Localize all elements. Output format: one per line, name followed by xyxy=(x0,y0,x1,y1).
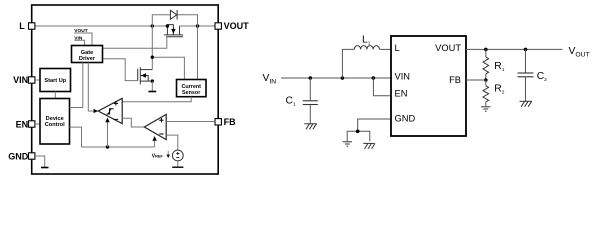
svg-text:FB: FB xyxy=(224,117,236,127)
voltage source VREF xyxy=(172,150,183,161)
capacitor C2 xyxy=(525,49,527,73)
svg-text:Current: Current xyxy=(181,84,201,90)
Q2 body stub with arrow xyxy=(140,76,148,82)
outer IC boundary box xyxy=(32,5,219,174)
wire: comparator minus to error amp output xyxy=(122,118,144,127)
svg-text:Control: Control xyxy=(45,122,65,128)
wire: FB tap xyxy=(466,79,486,81)
svg-text:Sensor: Sensor xyxy=(182,90,201,96)
ground (Q2 source) xyxy=(148,91,156,93)
node: R1 junction xyxy=(484,48,488,52)
svg-text:Driver: Driver xyxy=(79,56,96,62)
node: drain junction dot xyxy=(151,56,154,59)
svg-text:EN: EN xyxy=(395,88,408,98)
svg-text:VOUT: VOUT xyxy=(224,21,250,31)
VIN supply label above gate driver xyxy=(74,35,84,45)
wire: FB pin to error amp + xyxy=(166,121,215,123)
transistor Q1 (PMOS sync rectifier) xyxy=(164,25,183,37)
wire: diode branch xyxy=(152,15,170,26)
block: Gate Driver U2 xyxy=(72,46,103,63)
svg-text:Start Up: Start Up xyxy=(44,78,66,84)
hysteresis glyph inside comparator xyxy=(107,109,114,114)
wire: error amp - to VREF xyxy=(166,135,178,150)
ground (GND pin) xyxy=(41,167,49,169)
svg-text:FB: FB xyxy=(449,75,461,85)
VOUT supply label above gate driver xyxy=(74,28,92,46)
svg-text:VOUT: VOUT xyxy=(435,43,461,53)
wire: VIN pin to Start Up xyxy=(35,79,40,81)
Q2 source stub xyxy=(140,80,152,82)
pin FB xyxy=(215,119,221,125)
svg-text:VIN: VIN xyxy=(395,72,411,82)
wire: EN pin to Device Control xyxy=(35,123,40,125)
Q2 gate bar xyxy=(137,69,139,81)
wire: top rail left segment (L pin to PMOS drain stub) xyxy=(35,25,168,27)
wire: L1 to IC L pin xyxy=(379,48,391,50)
svg-text:EN: EN xyxy=(16,119,29,129)
node: SW junction dot xyxy=(151,24,154,27)
node: C1 junction xyxy=(309,76,313,80)
wire: VOUT rail down to current sensor xyxy=(197,26,199,80)
wire: device control lower output rail xyxy=(70,127,155,147)
ground (VREF) xyxy=(172,166,183,168)
resistor R1 xyxy=(485,49,487,57)
svg-text:GND: GND xyxy=(8,151,29,161)
node: VOUT-side junction dot xyxy=(196,24,199,27)
ground (C1, chassis style) xyxy=(304,124,317,130)
wire: riser to L1 xyxy=(342,49,354,78)
wire+arrow into comparator bottom xyxy=(107,121,109,147)
node: FB junction xyxy=(484,78,488,82)
op-amp U4 (error amplifier, points left) xyxy=(144,114,166,139)
Q1 body stub with arrow xyxy=(172,25,174,35)
ground (R2, bar style) xyxy=(481,107,490,111)
Q1 drain stub xyxy=(166,26,168,35)
node: C2 junction xyxy=(524,48,528,52)
Q1 gate bar xyxy=(166,36,183,38)
Q1 source stub xyxy=(179,26,181,35)
node: Q1 drain junction dot xyxy=(166,24,169,27)
node: L1 junction xyxy=(341,76,345,80)
Q2 drain stub xyxy=(140,69,152,71)
block: Device Control xyxy=(40,99,70,145)
wire: gate driver to comparator output node xyxy=(88,63,94,112)
arrow into comparator output xyxy=(94,109,99,113)
wire: VREF to ground xyxy=(177,161,179,167)
svg-text:L: L xyxy=(19,21,25,31)
node: Q2 source dot xyxy=(151,79,154,82)
svg-text:VIN: VIN xyxy=(13,75,28,85)
op-amp U3 (hysteretic comparator, points left) xyxy=(98,98,122,123)
wire: Q2 source to ground xyxy=(151,81,153,91)
wire: EN tied to VIN xyxy=(373,78,391,96)
wire+arrow into error amp bottom xyxy=(154,140,156,148)
wire: VOUT rail xyxy=(466,48,563,50)
wire: gate driver to NMOS gate xyxy=(103,59,138,81)
diode (rectifier, anode left) xyxy=(170,10,177,20)
svg-text:L: L xyxy=(395,43,400,53)
pin VOUT xyxy=(215,23,221,29)
node: EN junction xyxy=(372,76,376,80)
block: Start Up xyxy=(40,69,71,92)
node: gnd junction dot xyxy=(356,130,360,134)
node: rail junction dot xyxy=(106,145,109,148)
wire: device control to gate driver xyxy=(70,63,83,108)
Q2 channel bar xyxy=(139,67,141,84)
ground (C2, chassis style) xyxy=(520,101,533,107)
transistor Q2 (NMOS switch) xyxy=(138,67,153,84)
ground (signal, bar style) xyxy=(343,142,352,146)
wire: current sensor output to comparator + input xyxy=(121,97,192,102)
wire: top rail right segment (PMOS source stub to VOUT pin) xyxy=(180,25,216,27)
wire: Q1 gate to gate driver xyxy=(103,37,167,49)
ground (chassis style, right) xyxy=(363,143,375,149)
svg-text:GND: GND xyxy=(395,114,416,124)
wire: GND pin to internal ground xyxy=(35,156,45,167)
Q1 channel bar xyxy=(164,34,183,36)
inductor L1 xyxy=(354,46,379,50)
wire: GND pin net xyxy=(358,119,391,131)
wire: SW vertical (rail to NMOS drain) xyxy=(151,26,153,70)
resistor R2 xyxy=(485,80,487,86)
IC U1 (application) xyxy=(391,36,466,136)
wire: start up to device control xyxy=(54,92,56,99)
wire: NMOS drain node horizontal to current sensor xyxy=(152,57,184,79)
block: Current Sensor xyxy=(177,80,207,97)
wire: VIN rail xyxy=(281,77,391,79)
